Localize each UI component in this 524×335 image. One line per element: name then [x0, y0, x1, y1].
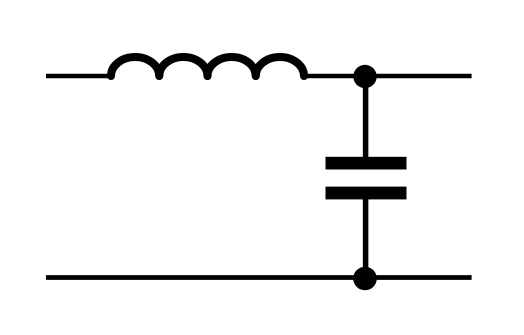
node junction dot top: [353, 65, 376, 88]
capacitor C1 top plate: [326, 157, 407, 170]
inductor L1: [111, 57, 304, 76]
wire bottom rail: [46, 275, 472, 280]
wire vertical from top node to capacitor: [363, 76, 369, 162]
wire top-left input segment: [46, 74, 113, 79]
capacitor C1 bottom plate: [326, 187, 407, 200]
wire vertical from capacitor to bottom node: [363, 194, 369, 279]
node junction dot bottom: [353, 267, 377, 291]
wire top from inductor to output: [302, 74, 472, 79]
